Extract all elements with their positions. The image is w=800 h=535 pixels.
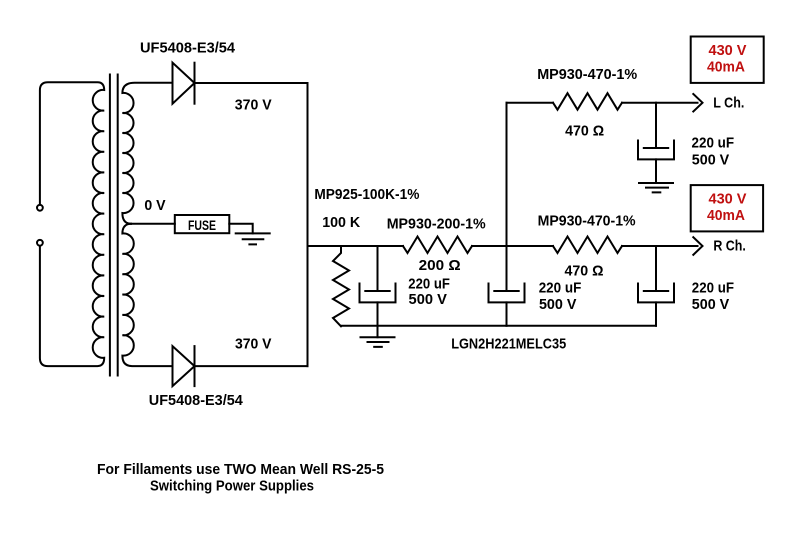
- svg-text:UF5408-E3/54: UF5408-E3/54: [149, 392, 244, 409]
- svg-text:220 uF: 220 uF: [408, 275, 450, 292]
- svg-text:For Fillaments use TWO Mean We: For Fillaments use TWO Mean Well RS-25-5: [97, 461, 384, 478]
- svg-text:500 V: 500 V: [539, 296, 577, 313]
- red spec box 1 (L output): [691, 37, 764, 83]
- svg-text:500 V: 500 V: [692, 296, 729, 313]
- svg-text:MP930-200-1%: MP930-200-1%: [387, 215, 486, 232]
- svg-text:UF5408-E3/54: UF5408-E3/54: [140, 39, 236, 56]
- svg-text:220 uF: 220 uF: [692, 135, 735, 152]
- svg-text:220 uF: 220 uF: [539, 279, 582, 296]
- capacitor C3 stem to ground: [655, 159, 657, 183]
- diode D1 (top rectifier) triangle: [173, 63, 195, 104]
- transformer core line left: [109, 75, 111, 376]
- diode D2 cathode bar: [194, 346, 196, 386]
- diode D2 (bottom rectifier) triangle: [173, 346, 195, 386]
- svg-text:200 Ω: 200 Ω: [419, 257, 461, 274]
- wire D2 cathode to right vertical: [195, 365, 308, 367]
- wire main node horizontal to 200 ohm resistor: [308, 245, 404, 247]
- svg-text:500 V: 500 V: [409, 291, 447, 308]
- ground (fuse): [236, 233, 270, 244]
- capacitor C2 cup plate: [489, 284, 525, 303]
- wire L branch vertical (node to L rail, down to C2): [506, 103, 508, 291]
- red spec box 2 (R output): [691, 185, 763, 231]
- wire ground bus: [341, 325, 656, 327]
- ground stem (bus): [377, 326, 379, 337]
- svg-text:370 V: 370 V: [235, 336, 272, 353]
- capacitor C1 bottom stem: [377, 302, 379, 325]
- svg-text:430 V: 430 V: [709, 42, 747, 59]
- resistor R2 MP930-200 zigzag: [403, 237, 472, 254]
- capacitor C4 bottom stem: [655, 302, 657, 325]
- wire center tap to fuse: [130, 223, 175, 225]
- resistor R3 MP930-470 (R channel) zigzag: [553, 237, 622, 254]
- arrow L channel: [693, 94, 702, 112]
- capacitor C3 top plate: [644, 147, 668, 149]
- ground (bus): [361, 337, 395, 347]
- transformer core line right: [117, 75, 119, 376]
- svg-text:0 V: 0 V: [144, 197, 165, 214]
- wire D1 cathode to right vertical: [195, 82, 308, 84]
- fuse F1 box: [175, 215, 230, 233]
- wire B+ right vertical rail: [307, 83, 309, 366]
- svg-text:MP930-470-1%: MP930-470-1%: [538, 213, 636, 230]
- svg-text:FUSE: FUSE: [188, 217, 216, 233]
- svg-text:470 Ω: 470 Ω: [565, 263, 604, 280]
- svg-text:R Ch.: R Ch.: [713, 237, 746, 254]
- svg-text:220 uF: 220 uF: [692, 279, 734, 296]
- arrow R channel: [693, 237, 702, 255]
- capacitor C4 cup plate: [638, 284, 674, 303]
- terminal circle (primary top input): [37, 205, 43, 211]
- resistor R4 MP930-470 (L channel) zigzag: [553, 93, 622, 110]
- svg-text:Switching Power Supplies: Switching Power Supplies: [150, 478, 314, 495]
- capacitor C2 bottom stem: [506, 302, 508, 325]
- capacitor C1 top plate: [365, 290, 389, 292]
- capacitor C1 cup plate: [360, 284, 396, 303]
- svg-text:40mA: 40mA: [707, 207, 745, 224]
- svg-text:LGN2H221MELC35: LGN2H221MELC35: [451, 335, 566, 352]
- capacitor C4 stub from R rail: [655, 246, 657, 291]
- ground (C3): [639, 183, 673, 192]
- capacitor C2 top plate: [494, 290, 518, 292]
- svg-text:370 V: 370 V: [235, 97, 272, 114]
- transformer T1 primary winding with input leads: [40, 82, 104, 366]
- transformer T1 secondary lower half winding + bottom lead: [122, 224, 172, 366]
- svg-text:MP925-100K-1%: MP925-100K-1%: [314, 186, 419, 203]
- wire R3 to R-arrow: [622, 245, 698, 247]
- wire fuse to ground: [229, 224, 252, 234]
- svg-text:L Ch.: L Ch.: [713, 95, 744, 112]
- svg-text:430 V: 430 V: [709, 191, 747, 208]
- svg-text:40mA: 40mA: [707, 58, 745, 75]
- svg-text:470 Ω: 470 Ω: [565, 123, 604, 140]
- svg-text:500 V: 500 V: [692, 151, 729, 168]
- svg-text:100 K: 100 K: [322, 214, 360, 231]
- capacitor C4 top plate: [644, 290, 668, 292]
- capacitor C1 stub from node: [377, 246, 379, 291]
- diode D1 cathode bar: [194, 63, 196, 104]
- resistor R1 100K vertical zigzag: [333, 246, 349, 326]
- wire R4 to L-arrow: [622, 102, 698, 104]
- capacitor C3 stub from L rail: [655, 103, 657, 148]
- transformer T1 secondary upper half winding + top lead: [122, 83, 172, 224]
- terminal circle (primary bottom input): [37, 240, 43, 246]
- svg-text:MP930-470-1%: MP930-470-1%: [537, 66, 637, 83]
- wire L branch horizontal to R4: [507, 102, 554, 104]
- wire R2 to R3: [472, 245, 553, 247]
- capacitor C3 cup plate: [638, 141, 674, 160]
